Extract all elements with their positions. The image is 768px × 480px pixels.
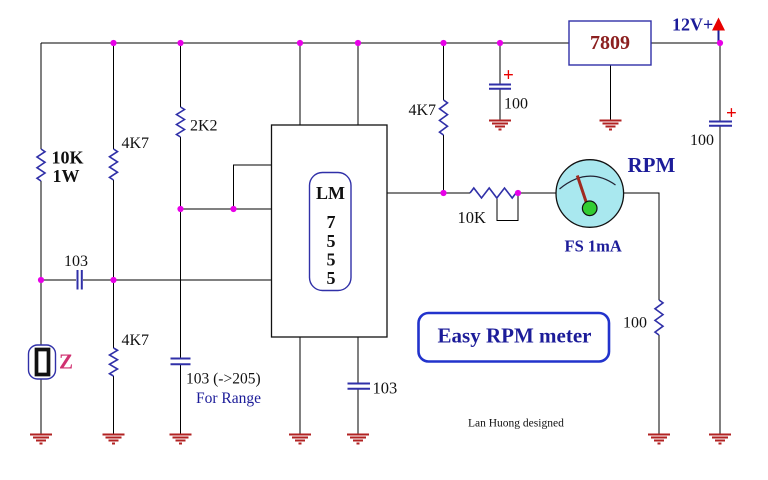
wire top supply rail xyxy=(41,42,569,44)
wire filter cap upper xyxy=(499,43,501,84)
title box Easy RPM meter xyxy=(419,313,610,362)
svg-text:5: 5 xyxy=(327,231,336,251)
node junction 6 xyxy=(497,40,503,46)
wire 4K7 pullup upper xyxy=(443,43,445,100)
capacitor 103 at IC pin 5 xyxy=(348,384,371,389)
svg-text:5: 5 xyxy=(327,268,336,288)
capacitor 100uF filter xyxy=(489,85,511,89)
wire third branch middle xyxy=(180,137,182,358)
node junction 10 xyxy=(38,277,44,283)
wire second branch lower xyxy=(113,376,115,435)
svg-text:4K7: 4K7 xyxy=(122,135,150,152)
resistor 2K2 xyxy=(177,107,185,137)
ground 12V cap xyxy=(709,435,731,444)
svg-text:Lan Huong designed: Lan Huong designed xyxy=(468,418,564,430)
wire capacitor to ground xyxy=(357,390,359,436)
wire 7809 ground pin xyxy=(610,65,612,121)
svg-text:100: 100 xyxy=(623,315,647,332)
svg-text:1W: 1W xyxy=(53,166,80,186)
svg-text:103: 103 xyxy=(373,379,398,398)
ground third branch xyxy=(170,435,192,444)
wire left branch lower xyxy=(40,379,42,435)
node junction 8 xyxy=(177,206,183,212)
svg-text:Z: Z xyxy=(59,350,73,374)
wire IC pin 3 output xyxy=(387,192,470,194)
crystal Z xyxy=(29,345,56,379)
svg-text:+: + xyxy=(503,65,514,86)
wire meter to resistor corner xyxy=(624,193,660,300)
meter M1 RPM xyxy=(556,160,624,228)
node junction 11 xyxy=(110,277,116,283)
wire second branch upper xyxy=(113,43,115,149)
IC U1 LM7555 body xyxy=(272,125,388,337)
node junction 2 xyxy=(177,40,183,46)
wire IC bottom pin 5 to capacitor xyxy=(357,337,359,383)
svg-text:2K2: 2K2 xyxy=(190,118,218,135)
svg-text:103: 103 xyxy=(64,253,88,270)
wire third branch upper xyxy=(180,43,182,107)
svg-text:103 (->205): 103 (->205) xyxy=(186,371,261,388)
svg-text:For Range: For Range xyxy=(196,390,261,407)
wire left branch middle xyxy=(40,181,42,345)
node junction 3 xyxy=(297,40,303,46)
power arrow 12V xyxy=(712,18,725,44)
svg-text:5: 5 xyxy=(327,250,336,270)
wire filter cap to ground xyxy=(499,89,501,121)
capacitor 100uF at 12V rail xyxy=(709,122,732,126)
node junction 1 xyxy=(110,40,116,46)
ground meter shunt xyxy=(648,435,670,444)
svg-text:10K: 10K xyxy=(458,208,487,227)
wire IC bottom pin 1 to ground xyxy=(299,337,301,435)
svg-text:7809: 7809 xyxy=(590,32,630,54)
resistor trimmer 10K xyxy=(470,188,516,198)
node junction 13 xyxy=(515,190,521,196)
wire 12V rail lower to ground xyxy=(719,126,721,435)
ground left branch xyxy=(30,435,52,444)
regulator 7809 body xyxy=(569,21,651,65)
svg-text:100: 100 xyxy=(504,96,528,113)
svg-text:12V+: 12V+ xyxy=(672,15,713,35)
wire node to IC left pin xyxy=(181,208,272,210)
wire 4K7 pullup lower xyxy=(443,135,445,193)
wire left branch upper xyxy=(40,43,42,149)
resistor 10K 1W xyxy=(37,149,45,181)
wire input net to IC pin 2 xyxy=(83,279,272,281)
ground IC pin 5 cap xyxy=(347,435,369,444)
svg-text:4K7: 4K7 xyxy=(122,332,150,349)
node junction 12 xyxy=(440,190,446,196)
node junction 9 xyxy=(230,206,236,212)
wire input net left of capacitor xyxy=(41,279,76,281)
ground filter cap xyxy=(489,120,511,129)
wire trimmer wiper loop xyxy=(497,194,518,221)
svg-text:100: 100 xyxy=(690,132,714,149)
resistor 4K7 lower-left xyxy=(110,348,118,376)
wire IC top pin 8 xyxy=(299,43,301,125)
wire step to IC upper left pin xyxy=(234,165,272,209)
wire second branch middle xyxy=(113,180,115,348)
node junction 4 xyxy=(355,40,361,46)
svg-text:10K: 10K xyxy=(52,148,84,168)
resistor 100 meter shunt xyxy=(655,300,663,335)
svg-text:LM: LM xyxy=(316,183,345,203)
node junction 7 xyxy=(717,40,723,46)
svg-text:+: + xyxy=(726,103,737,124)
wire trimmer to meter xyxy=(516,192,557,194)
ground second branch xyxy=(103,435,125,444)
node junction 5 xyxy=(440,40,446,46)
svg-text:Easy RPM meter: Easy RPM meter xyxy=(438,324,592,348)
resistor 4K7 pullup xyxy=(440,100,448,135)
ground 7809 xyxy=(600,120,622,129)
svg-text:FS 1mA: FS 1mA xyxy=(565,237,622,256)
wire meter resistor to ground xyxy=(658,335,660,435)
IC U1 inner outline xyxy=(310,173,352,291)
svg-text:4K7: 4K7 xyxy=(409,102,437,119)
wire IC top pin 4 xyxy=(357,43,359,125)
capacitor 103 range xyxy=(171,359,191,365)
wire third branch lower xyxy=(180,365,182,436)
wire 12V rail upper xyxy=(719,43,721,121)
capacitor 103 input coupling xyxy=(78,270,82,290)
ground IC pin 1 xyxy=(289,435,311,444)
resistor 4K7 upper-left xyxy=(110,149,118,180)
svg-text:7: 7 xyxy=(327,212,336,232)
svg-text:RPM: RPM xyxy=(628,153,676,177)
wire 7809 output to 12V node xyxy=(651,42,720,44)
